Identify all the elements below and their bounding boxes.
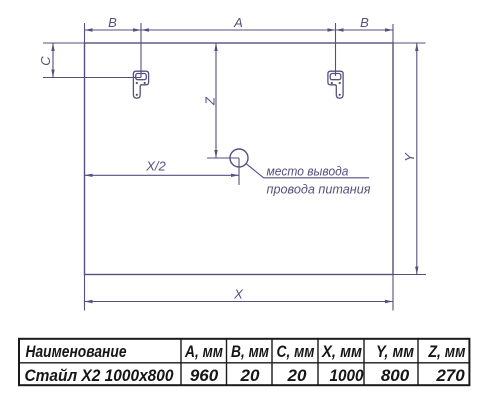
dimension B right: [336, 28, 394, 31]
dimension Z: [207, 43, 239, 158]
svg-text:960: 960: [190, 366, 219, 385]
svg-text:Наименование: Наименование: [26, 342, 127, 361]
tick left of circle: [207, 157, 239, 159]
centerline right bracket: [335, 23, 337, 76]
svg-text:Y: Y: [402, 152, 417, 162]
tick below circle: [238, 158, 240, 185]
svg-text:Y, мм: Y, мм: [376, 342, 414, 361]
centerline left bracket: [140, 23, 142, 78]
bracket right (wall hook, mirrored): [328, 71, 343, 98]
leader line to circle: [246, 164, 369, 178]
svg-text:X/2: X/2: [145, 159, 166, 174]
extension line left-below: [84, 275, 86, 311]
table: [19, 339, 469, 385]
power outlet circle: [230, 149, 248, 167]
bracket left (wall hook): [133, 71, 148, 98]
svg-text:X, мм: X, мм: [321, 342, 362, 361]
dimension X/2: [85, 174, 240, 177]
extension line top-right: [393, 42, 426, 44]
svg-text:C, мм: C, мм: [277, 342, 315, 361]
svg-text:270: 270: [435, 366, 465, 385]
svg-text:Z: Z: [203, 96, 218, 106]
extension line bottom-right: [393, 274, 426, 276]
extension line top-left: [43, 42, 85, 44]
dimension C: [51, 43, 54, 78]
dimension Y: [415, 43, 418, 275]
table header row: [26, 342, 466, 361]
svg-text:B: B: [108, 15, 117, 30]
dimension B left: [85, 28, 142, 31]
panel outline rectangle: [85, 43, 394, 275]
svg-text:Стайл Х2 1000х800: Стайл Х2 1000х800: [25, 366, 174, 385]
svg-text:A: A: [233, 15, 243, 30]
table data row: [25, 366, 466, 385]
svg-text:X: X: [233, 287, 244, 302]
svg-text:C: C: [38, 56, 53, 66]
line C level through left bracket: [43, 77, 141, 79]
extension line left-above: [84, 23, 86, 43]
svg-text:провода питания: провода питания: [267, 182, 371, 197]
svg-text:место вывода: место вывода: [267, 164, 349, 179]
svg-text:B: B: [360, 15, 369, 30]
svg-text:Z, мм: Z, мм: [428, 342, 466, 361]
dimension A: [141, 28, 336, 31]
svg-text:20: 20: [240, 366, 260, 385]
extension line right-above: [392, 24, 394, 43]
svg-text:A, мм: A, мм: [184, 342, 223, 361]
svg-text:20: 20: [287, 366, 307, 385]
svg-text:B, мм: B, мм: [231, 342, 269, 361]
dimension X: [85, 300, 394, 303]
svg-text:800: 800: [381, 366, 410, 385]
svg-text:1000: 1000: [330, 366, 364, 385]
extension line right-below: [392, 275, 394, 311]
